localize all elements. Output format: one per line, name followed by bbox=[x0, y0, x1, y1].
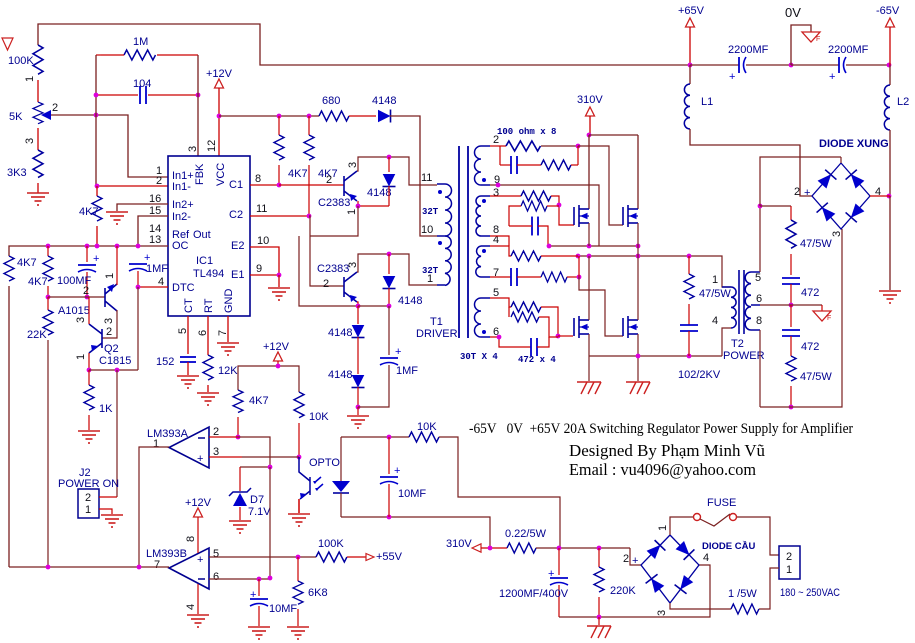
diode bridge BL bbox=[817, 203, 837, 223]
svg-text:6: 6 bbox=[756, 293, 762, 305]
transistor Q3 C2383 upper bbox=[344, 171, 357, 201]
transistor M2 mosfet bbox=[623, 205, 638, 227]
svg-text:9: 9 bbox=[256, 263, 262, 275]
svg-text:1M: 1M bbox=[133, 36, 148, 48]
diode bridge BR bbox=[846, 203, 866, 223]
wire top rail from 100K top to +65V node bbox=[38, 24, 690, 65]
diode 4148 series B bbox=[328, 337, 365, 407]
wire base row to A1015 bbox=[48, 296, 105, 298]
ground under 4148 pair bbox=[357, 407, 359, 415]
fuse FUSE bbox=[694, 497, 737, 526]
wire 100K to pot bbox=[37, 80, 39, 102]
svg-text:100 ohm x 8: 100 ohm x 8 bbox=[497, 127, 556, 137]
capacitor 10MF opto bbox=[380, 437, 426, 517]
svg-text:DIODE CẦU: DIODE CẦU bbox=[702, 541, 755, 552]
svg-text:FUSE: FUSE bbox=[707, 497, 736, 509]
wire mid row to rail bbox=[299, 236, 358, 306]
wire 22K down to bottom rail bbox=[47, 340, 49, 567]
wire 3K3 to ground bbox=[37, 183, 39, 193]
resistor 22K bbox=[27, 297, 53, 341]
resistor 4K7 under In1- bbox=[79, 186, 102, 246]
wire loop right side bbox=[439, 437, 560, 548]
svg-text:2: 2 bbox=[83, 285, 89, 297]
svg-text:10: 10 bbox=[421, 224, 433, 236]
svg-text:5K: 5K bbox=[9, 111, 23, 123]
svg-text:T1: T1 bbox=[430, 316, 443, 328]
svg-text:2: 2 bbox=[85, 492, 91, 504]
capacitor 1MF (driver) bbox=[358, 306, 418, 407]
svg-text:POWER: POWER bbox=[723, 350, 765, 362]
svg-text:E2: E2 bbox=[231, 240, 244, 252]
svg-text:+12V: +12V bbox=[263, 341, 290, 353]
resistor 4K7 far-left column bbox=[4, 256, 37, 281]
svg-text:4148: 4148 bbox=[367, 187, 391, 199]
wire pot tap to In1+ bbox=[51, 115, 168, 177]
svg-text:Email : vu4096@yahoo.com: Email : vu4096@yahoo.com bbox=[569, 460, 756, 479]
wire node A to M2 gate bbox=[578, 146, 623, 225]
wire upper C2383 emitter to clamp column bbox=[358, 201, 389, 206]
wire pin4 to ground bbox=[185, 584, 198, 614]
svg-text:472: 472 bbox=[801, 287, 819, 299]
svg-text:4K7: 4K7 bbox=[79, 206, 99, 218]
wire winding1 return to rail1 bbox=[490, 185, 599, 246]
wire C2 column down to lower base bbox=[309, 216, 344, 286]
node dot +12V x 680 row bbox=[217, 114, 222, 119]
svg-text:30T X 4: 30T X 4 bbox=[460, 352, 498, 362]
diode 4148 series A bbox=[328, 306, 365, 339]
svg-text:6K8: 6K8 bbox=[308, 587, 328, 599]
wire node up-right to bridge top bbox=[760, 157, 841, 206]
svg-text:2: 2 bbox=[106, 326, 112, 338]
svg-text:0V: 0V bbox=[785, 5, 801, 20]
svg-text:100K: 100K bbox=[8, 55, 34, 67]
resistor 1K bbox=[84, 370, 113, 430]
svg-text:1: 1 bbox=[657, 525, 669, 531]
svg-text:C2383: C2383 bbox=[317, 263, 349, 275]
svg-text:+: + bbox=[93, 253, 99, 265]
svg-text:TL494: TL494 bbox=[193, 268, 224, 280]
connector J2 POWER ON bbox=[58, 467, 119, 518]
diode 4148 vertical (clamp lower) bbox=[383, 254, 423, 307]
svg-text:CT: CT bbox=[183, 298, 195, 313]
wire pin10 E2 bbox=[250, 247, 279, 275]
ground under opto bbox=[288, 514, 310, 526]
svg-text:104: 104 bbox=[133, 78, 151, 90]
svg-text:Q2: Q2 bbox=[104, 343, 119, 355]
rail under driver bbox=[358, 305, 389, 307]
svg-text:+: + bbox=[632, 555, 638, 567]
transformer T2 secondary coil bbox=[745, 272, 760, 330]
resistor 12K bbox=[203, 355, 238, 380]
wire pin3 row bbox=[209, 456, 242, 458]
capacitor 102/2KV bbox=[678, 325, 721, 381]
wire T2 pin4 bbox=[722, 328, 731, 356]
svg-text:8: 8 bbox=[185, 536, 197, 542]
ground E1/E2 bbox=[268, 288, 290, 300]
svg-text:RT: RT bbox=[203, 298, 215, 313]
winding2 damp resistor bbox=[509, 201, 559, 226]
capacitor 10MF soft-start bbox=[250, 579, 297, 626]
svg-text:OPTO: OPTO bbox=[309, 457, 340, 469]
wire node right to output filter bbox=[760, 205, 791, 207]
wire M3 source down to ground bbox=[588, 334, 590, 381]
winding2 damp cap bbox=[509, 217, 548, 246]
transistor M3 mosfet bbox=[574, 316, 589, 338]
svg-text:2200MF: 2200MF bbox=[728, 44, 769, 56]
wire pot to 3K3 bbox=[37, 128, 39, 150]
wire 4K7 to base row bbox=[47, 286, 49, 297]
svg-text:16: 16 bbox=[149, 193, 161, 205]
wire M3 drain up to rail1 bbox=[588, 256, 590, 320]
wire RT pin6 down bbox=[207, 316, 209, 355]
ground hatch bottom bbox=[598, 617, 600, 625]
svg-text:OC: OC bbox=[172, 240, 189, 252]
svg-text:2: 2 bbox=[326, 174, 332, 186]
svg-text:3: 3 bbox=[493, 187, 499, 199]
ground below 3K3 bbox=[27, 193, 49, 205]
wire 1M left column down to In1- bbox=[95, 55, 97, 186]
diode bridge TR bbox=[846, 170, 866, 190]
svg-text:1: 1 bbox=[153, 438, 159, 450]
svg-text:4K7: 4K7 bbox=[288, 168, 308, 180]
svg-text:DTC: DTC bbox=[172, 282, 195, 294]
svg-text:2: 2 bbox=[323, 278, 329, 290]
wire connector pin1 to 1/5W bbox=[759, 568, 779, 609]
svg-text:+12V: +12V bbox=[206, 68, 233, 80]
wire 104/1M right column to FBK pin3 bbox=[197, 55, 199, 156]
zener D7 7.1V bbox=[229, 488, 271, 520]
resistor 0.22/5W bbox=[505, 528, 547, 553]
op-amp LM393A bbox=[147, 426, 219, 468]
+12V supply over IC bbox=[206, 68, 233, 156]
diode bridge2 BL bbox=[646, 574, 666, 593]
wire 310V row bbox=[536, 547, 630, 549]
svg-text:22K: 22K bbox=[27, 329, 47, 341]
wire pin11 C2 bbox=[250, 215, 309, 217]
wire pin2 row bbox=[209, 436, 238, 438]
svg-text:+: + bbox=[395, 346, 401, 358]
T1 phase dots primary bbox=[438, 190, 442, 194]
transistor Q2 C1815 bbox=[89, 324, 102, 353]
svg-text:+: + bbox=[804, 187, 810, 199]
capacitor 472 lower bbox=[782, 305, 819, 356]
svg-text:152: 152 bbox=[156, 356, 174, 368]
svg-text:3: 3 bbox=[187, 146, 199, 152]
wire far-left column down to bottom rail bbox=[8, 286, 10, 567]
svg-text:+12V: +12V bbox=[185, 497, 212, 509]
svg-text:3K3: 3K3 bbox=[7, 167, 27, 179]
svg-text:A1015: A1015 bbox=[58, 305, 90, 317]
svg-text:472 x 4: 472 x 4 bbox=[518, 355, 556, 365]
wire 0V node to cap2 bbox=[791, 64, 839, 66]
wire comparator link down bbox=[269, 467, 271, 578]
winding1 snubber resistor bbox=[517, 146, 578, 170]
ground under GND pin bbox=[217, 343, 239, 355]
capacitor 152 bbox=[180, 357, 196, 362]
svg-text:5: 5 bbox=[177, 328, 189, 334]
ground under 152 bbox=[177, 376, 199, 388]
wire Q2 collector up to base node bbox=[88, 297, 90, 324]
svg-text:4K7: 4K7 bbox=[28, 276, 48, 288]
wire bottom return row to bridge bbox=[760, 229, 842, 407]
svg-text:LM393B: LM393B bbox=[146, 548, 187, 560]
svg-text:7.1V: 7.1V bbox=[248, 506, 271, 518]
rail2 to T2 bbox=[578, 256, 731, 287]
svg-text:2200MF: 2200MF bbox=[828, 44, 869, 56]
wire loop bottom bbox=[341, 517, 490, 548]
svg-text:12: 12 bbox=[206, 140, 218, 152]
resistor 10K feedback bbox=[409, 421, 439, 442]
svg-text:+: + bbox=[197, 554, 203, 566]
wire GND pin7 down bbox=[227, 316, 229, 342]
svg-text:3: 3 bbox=[831, 231, 843, 237]
svg-text:4: 4 bbox=[712, 315, 718, 327]
wire +65V node to cap1 bbox=[690, 64, 739, 66]
wire DTC pin4 bbox=[138, 286, 168, 288]
310V net arrow bbox=[446, 538, 507, 552]
310V supply top bbox=[577, 94, 603, 135]
wire 310V to mosfet drains bbox=[589, 134, 638, 136]
ground under 12K bbox=[197, 393, 219, 405]
svg-text:1200MF/400V: 1200MF/400V bbox=[499, 588, 569, 600]
svg-text:4148: 4148 bbox=[328, 327, 352, 339]
svg-text:3: 3 bbox=[24, 138, 36, 144]
svg-text:10MF: 10MF bbox=[398, 488, 426, 500]
wire 680 to 4148 bbox=[349, 115, 376, 117]
0V net flag bbox=[785, 5, 820, 65]
svg-text:3: 3 bbox=[656, 610, 668, 616]
svg-text:C2383: C2383 bbox=[318, 197, 350, 209]
winding4 damp cap bbox=[490, 337, 549, 356]
-65V supply bbox=[876, 5, 900, 65]
svg-text:6: 6 bbox=[213, 571, 219, 583]
winding2 gate resistor bbox=[490, 191, 574, 225]
svg-text:11: 11 bbox=[256, 203, 267, 215]
svg-text:2: 2 bbox=[623, 553, 629, 565]
ground hatch under M3 bbox=[577, 382, 601, 394]
svg-text:E1: E1 bbox=[231, 269, 244, 281]
svg-text:4: 4 bbox=[185, 604, 197, 610]
svg-text:1: 1 bbox=[24, 76, 36, 82]
opto transistor bbox=[299, 457, 340, 513]
wire cap1 to 0V node bbox=[746, 64, 791, 66]
svg-text:In1-: In1- bbox=[172, 181, 191, 193]
svg-text:220K: 220K bbox=[610, 585, 636, 597]
svg-text:472: 472 bbox=[801, 341, 819, 353]
wire winding3 node to M4 gate bbox=[579, 277, 623, 336]
svg-text:IC1: IC1 bbox=[196, 255, 213, 267]
opto feedback loop wiring bbox=[341, 436, 409, 438]
svg-text:310V: 310V bbox=[446, 538, 472, 550]
winding4 damp resistor bbox=[509, 307, 558, 337]
resistor 4K7 (C1 drive) bbox=[274, 116, 308, 185]
svg-text:3: 3 bbox=[347, 162, 359, 168]
T2 core bbox=[738, 270, 740, 334]
svg-text:3: 3 bbox=[103, 318, 115, 324]
diode 4148 vertical (clamp upper) bbox=[367, 157, 396, 206]
svg-text:1: 1 bbox=[786, 564, 792, 576]
wire L2 down to bridge node bbox=[889, 130, 891, 196]
wire M3 gate feed bbox=[558, 335, 573, 337]
+12V supply comparator bbox=[263, 341, 290, 366]
resistor 100K bbox=[8, 45, 43, 74]
ground under 1K bbox=[78, 431, 100, 443]
svg-text:1MF: 1MF bbox=[146, 263, 168, 275]
capacitor 472 upper bbox=[782, 278, 819, 305]
op-amp U1 IC1 TL494 body bbox=[168, 156, 250, 316]
potentiometer 5K bbox=[9, 102, 58, 124]
wire lower C2383 emitter to rail bbox=[357, 302, 358, 306]
wire 4148 to T1 pin10 bbox=[390, 116, 437, 236]
wire A1015 collector down to Q2 base bbox=[102, 310, 117, 338]
svg-text:+: + bbox=[729, 71, 735, 83]
wire OC pin13 row bbox=[9, 246, 168, 256]
svg-text:L1: L1 bbox=[701, 96, 713, 108]
svg-text:DIODE XUNG: DIODE XUNG bbox=[819, 138, 889, 150]
ground In2+ bbox=[106, 212, 128, 224]
wire bridge bottom to 1/5W bbox=[670, 603, 731, 609]
resistor 220K bbox=[594, 548, 636, 617]
svg-text:6: 6 bbox=[197, 330, 209, 336]
svg-text:T2: T2 bbox=[731, 338, 744, 350]
svg-text:47/5W: 47/5W bbox=[800, 238, 832, 250]
svg-text:4: 4 bbox=[703, 552, 709, 564]
svg-text:10: 10 bbox=[257, 235, 269, 247]
wire In1- to 4K7 column bbox=[97, 185, 168, 187]
T1 secondary winding 4 bbox=[475, 298, 491, 337]
capacitor 1MF (DTC) bbox=[129, 252, 168, 287]
svg-text:+55V: +55V bbox=[376, 551, 403, 563]
wire J2 pin2 bbox=[99, 496, 117, 498]
inductor L2 bbox=[884, 65, 909, 130]
F flag mid output bbox=[813, 305, 831, 322]
resistor 47/5W lower output bbox=[786, 356, 832, 407]
wire CT pin5 down bbox=[187, 316, 189, 354]
resistor 10K comparator bbox=[294, 392, 329, 457]
svg-text:1: 1 bbox=[75, 354, 87, 360]
svg-text:1: 1 bbox=[85, 504, 91, 516]
svg-text:+: + bbox=[829, 71, 835, 83]
svg-text:-65V: -65V bbox=[876, 5, 900, 17]
svg-text:-65V 0V +65V 20A Switching: -65V 0V +65V 20A Switching Regulator Pow… bbox=[469, 421, 853, 437]
wire cap2 to -65V node bbox=[846, 64, 890, 66]
winding1 snubber cap bbox=[500, 146, 517, 174]
pin number labels right bbox=[255, 173, 269, 275]
svg-text:2: 2 bbox=[156, 175, 162, 187]
connector mains bbox=[779, 546, 840, 599]
svg-text:2: 2 bbox=[786, 551, 792, 563]
svg-text:C1815: C1815 bbox=[99, 355, 131, 367]
svg-text:5: 5 bbox=[493, 287, 499, 299]
node dots on OC row bbox=[46, 244, 51, 249]
svg-text:180 ~ 250VAC: 180 ~ 250VAC bbox=[780, 587, 840, 599]
svg-text:1MF: 1MF bbox=[396, 365, 418, 377]
svg-text:310V: 310V bbox=[577, 94, 603, 106]
wire M2 source to rail1 bbox=[637, 223, 639, 256]
svg-text:10K: 10K bbox=[309, 411, 329, 423]
wire emitter jog down to mid wire bbox=[310, 206, 358, 236]
inductor L1 bbox=[684, 65, 713, 129]
svg-text:8: 8 bbox=[255, 173, 261, 185]
wire pin9 E1 bbox=[250, 274, 279, 276]
diode bridge2 TR bbox=[675, 540, 695, 560]
winding3 resistor bbox=[490, 246, 578, 261]
svg-text:100K: 100K bbox=[318, 538, 344, 550]
wire node to ground bbox=[889, 196, 891, 290]
svg-text:+: + bbox=[548, 568, 554, 580]
diode 4148 horizontal bbox=[372, 95, 396, 123]
T1 secondary winding 3 bbox=[476, 246, 490, 277]
winding1 gate network resistor 100 bbox=[490, 141, 578, 151]
svg-text:15: 15 bbox=[149, 205, 161, 217]
svg-text:3: 3 bbox=[75, 317, 87, 323]
ground under D7 bbox=[229, 521, 251, 533]
wire +12V node to 680 bbox=[219, 115, 319, 117]
wire pin8 C1 bbox=[250, 184, 279, 186]
resistor 6K8 bbox=[293, 557, 328, 626]
rail1 gate return bbox=[549, 245, 639, 247]
svg-text:13: 13 bbox=[149, 234, 161, 246]
svg-text:11: 11 bbox=[421, 172, 432, 184]
winding3 damp cap bbox=[490, 268, 517, 286]
svg-text:0.22/5W: 0.22/5W bbox=[505, 528, 547, 540]
transistor M4 mosfet bbox=[623, 316, 638, 338]
resistor 47/5W snubber T2 primary bbox=[684, 256, 731, 325]
ground under -65V node bbox=[879, 291, 901, 303]
svg-text:DRIVER: DRIVER bbox=[416, 328, 458, 340]
transistor Q4 C2383 lower bbox=[344, 272, 357, 302]
node dot pot wire x 1M column bbox=[94, 113, 99, 118]
resistor 47/5W upper output bbox=[786, 206, 843, 275]
svg-text:10K: 10K bbox=[417, 421, 437, 433]
svg-text:2: 2 bbox=[794, 186, 800, 198]
wire E1 to ground bbox=[278, 275, 280, 287]
svg-text:2: 2 bbox=[52, 102, 58, 114]
svg-text:8: 8 bbox=[756, 315, 762, 327]
svg-text:4148: 4148 bbox=[328, 369, 352, 381]
svg-text:12K: 12K bbox=[218, 365, 238, 377]
svg-text:102/2KV: 102/2KV bbox=[678, 369, 721, 381]
svg-text:680: 680 bbox=[322, 95, 340, 107]
svg-text:4K7: 4K7 bbox=[17, 257, 37, 269]
svg-text:4: 4 bbox=[158, 276, 164, 288]
svg-text:4148: 4148 bbox=[372, 95, 396, 107]
svg-text:In2+: In2+ bbox=[172, 199, 194, 211]
T1 core bbox=[458, 146, 460, 338]
svg-text:47/5W: 47/5W bbox=[800, 371, 832, 383]
svg-text:7: 7 bbox=[154, 559, 160, 571]
ground hatch under M4 bbox=[626, 382, 650, 394]
svg-text:POWER ON: POWER ON bbox=[58, 478, 119, 490]
svg-text:Out: Out bbox=[193, 229, 211, 241]
svg-text:L2: L2 bbox=[897, 96, 909, 108]
wire pin6 row bbox=[209, 578, 270, 580]
winding3 damp resistor bbox=[517, 272, 579, 282]
svg-text:+: + bbox=[197, 453, 203, 465]
svg-text:GND: GND bbox=[223, 289, 235, 314]
wire A1015 emitter up to OC row bbox=[116, 246, 118, 285]
wire 310V row to bridge + bbox=[630, 548, 641, 565]
capacitor 2200MF negative rail bbox=[828, 44, 869, 83]
svg-text:VCC: VCC bbox=[215, 163, 227, 186]
+65V supply bbox=[678, 5, 705, 65]
wire M1 source to rail1 bbox=[588, 223, 590, 246]
wire M4 drain up to rail1 bbox=[637, 256, 639, 320]
svg-text:C2: C2 bbox=[229, 209, 243, 221]
wire T2 pin5 up to node bbox=[759, 206, 761, 272]
svg-text:Designed By Phạm Minh Vũ: Designed By Phạm Minh Vũ bbox=[569, 441, 765, 460]
svg-text:1: 1 bbox=[346, 209, 358, 215]
